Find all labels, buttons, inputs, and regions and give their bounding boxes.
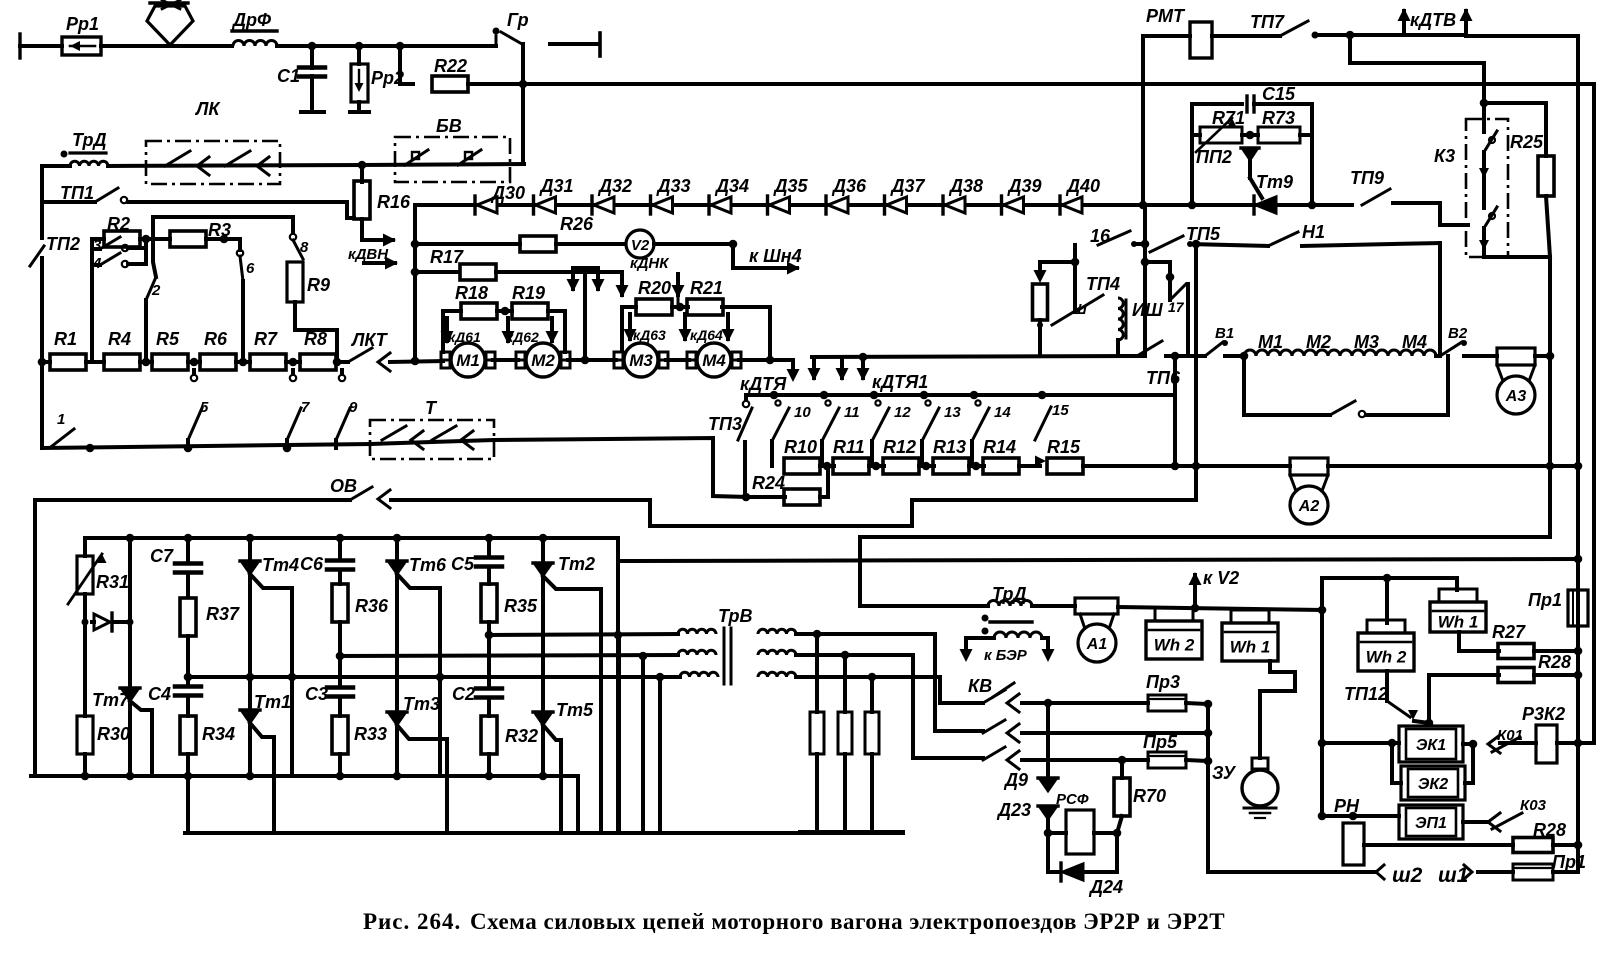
svg-text:R6: R6: [204, 329, 228, 349]
svg-text:ОВ: ОВ: [330, 476, 357, 496]
svg-text:Пр1: Пр1: [1552, 852, 1586, 872]
svg-text:М3: М3: [629, 351, 653, 370]
svg-text:10: 10: [794, 404, 811, 421]
svg-text:R15: R15: [1047, 437, 1081, 457]
svg-text:кДТЯ: кДТЯ: [740, 374, 787, 394]
svg-text:ЛК: ЛК: [194, 99, 221, 119]
svg-text:Д30: Д30: [490, 183, 525, 203]
svg-text:6: 6: [246, 260, 255, 277]
svg-text:V2: V2: [631, 237, 650, 254]
svg-text:Д39: Д39: [1007, 176, 1042, 196]
svg-text:ПП2: ПП2: [1196, 147, 1232, 167]
svg-text:Д32: Д32: [597, 176, 632, 196]
svg-text:А2: А2: [1298, 498, 1320, 515]
svg-text:Тт2: Тт2: [558, 554, 595, 574]
svg-text:РСФ: РСФ: [1056, 791, 1089, 808]
svg-text:М2: М2: [531, 351, 555, 370]
svg-text:ТП7: ТП7: [1250, 12, 1285, 32]
svg-text:Рис. 264.: Рис. 264.: [363, 909, 461, 934]
svg-text:М4: М4: [702, 351, 726, 370]
svg-text:ЭП1: ЭП1: [1415, 815, 1447, 832]
svg-text:Тт9: Тт9: [1256, 172, 1293, 192]
svg-text:ТП5: ТП5: [1186, 224, 1221, 244]
svg-text:Пр5: Пр5: [1143, 732, 1178, 752]
svg-text:R24: R24: [752, 473, 785, 493]
svg-text:С15: С15: [1262, 84, 1296, 104]
svg-text:ТП12: ТП12: [1344, 684, 1388, 704]
svg-text:R73: R73: [1262, 108, 1295, 128]
svg-text:3: 3: [93, 237, 102, 254]
svg-text:ЗУ: ЗУ: [1212, 763, 1237, 783]
svg-text:R10: R10: [784, 437, 817, 457]
svg-text:к БЭР: к БЭР: [984, 647, 1028, 664]
svg-text:R14: R14: [983, 437, 1016, 457]
svg-text:R33: R33: [354, 724, 387, 744]
svg-text:ТП3: ТП3: [708, 414, 742, 434]
svg-text:В1: В1: [1215, 325, 1234, 342]
svg-text:9: 9: [349, 399, 358, 416]
svg-text:R9: R9: [307, 275, 330, 295]
svg-text:R31: R31: [96, 572, 129, 592]
svg-text:R17: R17: [430, 247, 464, 267]
svg-text:кДНК: кДНК: [630, 255, 670, 272]
svg-text:к V2: к V2: [1203, 568, 1239, 588]
svg-text:R28: R28: [1538, 652, 1571, 672]
svg-text:ТрД: ТрД: [72, 130, 107, 150]
svg-text:R13: R13: [933, 437, 966, 457]
svg-text:R20: R20: [638, 278, 671, 298]
svg-text:С4: С4: [148, 684, 171, 704]
svg-text:Wh 2: Wh 2: [1154, 636, 1195, 655]
svg-text:Д9: Д9: [1003, 770, 1028, 790]
svg-text:Д24: Д24: [1088, 877, 1123, 897]
svg-text:R7: R7: [254, 329, 278, 349]
svg-text:Д40: Д40: [1065, 176, 1100, 196]
svg-text:R32: R32: [505, 726, 538, 746]
svg-text:ЛКТ: ЛКТ: [350, 330, 389, 350]
svg-text:R19: R19: [512, 283, 545, 303]
svg-text:Гр: Гр: [507, 10, 529, 30]
svg-text:Wh 1: Wh 1: [1438, 613, 1479, 632]
svg-text:13: 13: [944, 404, 961, 421]
svg-text:R70: R70: [1133, 786, 1166, 806]
svg-text:Wh 1: Wh 1: [1230, 638, 1271, 657]
svg-text:Тт6: Тт6: [409, 555, 447, 575]
svg-text:КВ: КВ: [968, 676, 992, 696]
svg-text:Р3К2: Р3К2: [1522, 704, 1565, 724]
svg-text:ЭК1: ЭК1: [1416, 737, 1446, 754]
svg-text:R4: R4: [108, 329, 131, 349]
svg-text:Тт4: Тт4: [262, 555, 299, 575]
svg-text:R27: R27: [1492, 622, 1526, 642]
svg-text:Д33: Д33: [656, 176, 691, 196]
svg-text:Д38: Д38: [948, 176, 983, 196]
svg-text:А1: А1: [1086, 636, 1108, 653]
svg-text:С1: С1: [277, 66, 300, 86]
svg-text:БВ: БВ: [436, 116, 462, 136]
svg-text:R21: R21: [690, 278, 723, 298]
svg-text:С7: С7: [150, 546, 174, 566]
svg-text:РМТ: РМТ: [1146, 6, 1186, 26]
svg-text:R18: R18: [455, 283, 488, 303]
svg-text:Д37: Д37: [890, 176, 926, 196]
svg-text:R22: R22: [434, 56, 467, 76]
svg-text:1: 1: [57, 411, 65, 428]
svg-text:ЭК2: ЭК2: [1418, 776, 1448, 793]
svg-text:Н1: Н1: [1302, 222, 1325, 242]
svg-text:Пр1: Пр1: [1528, 590, 1562, 610]
svg-text:11: 11: [844, 404, 860, 421]
svg-text:Пр3: Пр3: [1146, 672, 1180, 692]
svg-text:Д36: Д36: [831, 176, 867, 196]
svg-text:5: 5: [200, 399, 209, 416]
svg-text:R30: R30: [97, 724, 130, 744]
svg-text:Д23: Д23: [996, 800, 1031, 820]
svg-text:кД63: кД63: [633, 327, 666, 343]
svg-text:В2: В2: [1448, 325, 1468, 342]
svg-text:Схема силовых цепей моторно: Схема силовых цепей моторного вагона эле…: [470, 909, 1225, 934]
svg-text:R11: R11: [833, 437, 865, 457]
svg-text:Д34: Д34: [714, 176, 749, 196]
svg-text:С2: С2: [452, 684, 475, 704]
svg-text:С6: С6: [300, 554, 324, 574]
svg-text:14: 14: [994, 404, 1011, 421]
svg-text:кДВН: кДВН: [348, 246, 389, 263]
svg-text:кД64: кД64: [690, 327, 723, 343]
svg-text:Д31: Д31: [539, 176, 574, 196]
svg-text:R16: R16: [377, 192, 411, 212]
svg-text:R1: R1: [54, 329, 77, 349]
svg-text:ТП4: ТП4: [1086, 274, 1120, 294]
svg-text:кДТЯ1: кДТЯ1: [872, 372, 928, 392]
svg-text:R25: R25: [1510, 132, 1544, 152]
svg-text:к Шн4: к Шн4: [749, 246, 802, 266]
svg-text:ш1: ш1: [1438, 864, 1468, 887]
svg-text:R5: R5: [156, 329, 180, 349]
svg-text:ТрВ: ТрВ: [718, 606, 753, 626]
svg-text:R36: R36: [355, 596, 389, 616]
svg-text:К03: К03: [1520, 797, 1547, 814]
svg-text:7: 7: [301, 399, 310, 416]
svg-text:кДТВ: кДТВ: [1410, 10, 1456, 30]
svg-text:Д35: Д35: [773, 176, 809, 196]
svg-text:8: 8: [300, 239, 309, 256]
svg-text:ИШ: ИШ: [1132, 300, 1163, 320]
svg-text:С5: С5: [451, 554, 475, 574]
svg-text:Wh 2: Wh 2: [1366, 648, 1407, 667]
svg-text:ДрФ: ДрФ: [231, 10, 271, 30]
svg-text:R37: R37: [206, 604, 240, 624]
svg-text:R12: R12: [883, 437, 916, 457]
svg-text:К3: К3: [1434, 146, 1455, 166]
svg-text:ш2: ш2: [1392, 864, 1423, 887]
svg-text:РН: РН: [1334, 796, 1360, 816]
svg-text:А3: А3: [1505, 388, 1527, 405]
svg-text:Рр1: Рр1: [66, 14, 99, 34]
svg-text:R35: R35: [504, 596, 538, 616]
svg-text:R34: R34: [202, 724, 235, 744]
svg-text:ТП9: ТП9: [1350, 168, 1384, 188]
svg-text:ТП2: ТП2: [46, 234, 80, 254]
svg-text:М1: М1: [456, 351, 480, 370]
svg-text:кД62: кД62: [506, 329, 539, 345]
svg-text:15: 15: [1052, 402, 1069, 419]
svg-text:Тт5: Тт5: [556, 700, 594, 720]
svg-text:R8: R8: [304, 329, 327, 349]
svg-text:R26: R26: [560, 214, 594, 234]
svg-text:12: 12: [894, 404, 911, 421]
svg-text:С3: С3: [305, 684, 328, 704]
